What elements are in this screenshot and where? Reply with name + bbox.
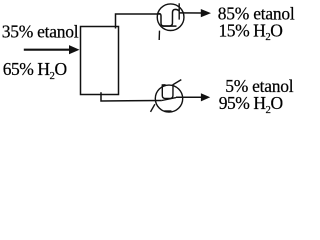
condenser E1 coolant line top-right [178, 3, 180, 19]
cooler E2 coolant stub bottom-left [151, 104, 155, 112]
feed arrow head [69, 45, 80, 54]
wire: cooler outlet to bottoms arrow [176, 96, 202, 98]
wire: overhead riser from column top [116, 14, 161, 29]
distillate arrow head [201, 9, 211, 17]
condenser E1 circle [157, 4, 184, 31]
cooler E2 bottom shading [164, 110, 171, 112]
condenser E1 coolant stub bottom-left [158, 31, 160, 40]
cooler E2 internal coil [162, 80, 181, 99]
wire: process line through cooler [162, 98, 176, 101]
cooler E2 (bottom heat exchanger) [151, 80, 183, 113]
wire: bottoms line from column bottom [101, 92, 162, 101]
condenser E1 internal coil [157, 9, 179, 26]
svg-text:95% H2O: 95% H2O [219, 93, 283, 116]
svg-text:65% H2O: 65% H2O [3, 59, 67, 82]
feed arrow line [24, 49, 71, 51]
wire: condenser outlet to distillate arrow [179, 12, 201, 14]
condenser E1 (top heat exchanger) [157, 3, 184, 40]
svg-text:15% H2O: 15% H2O [219, 20, 283, 43]
cooler E2 circle [155, 85, 182, 112]
svg-text:35% etanol: 35% etanol [2, 21, 79, 41]
condenser E1 coil bottom emphasis [163, 25, 177, 27]
bottoms arrow head [201, 93, 210, 101]
separation column (box) [81, 27, 119, 95]
